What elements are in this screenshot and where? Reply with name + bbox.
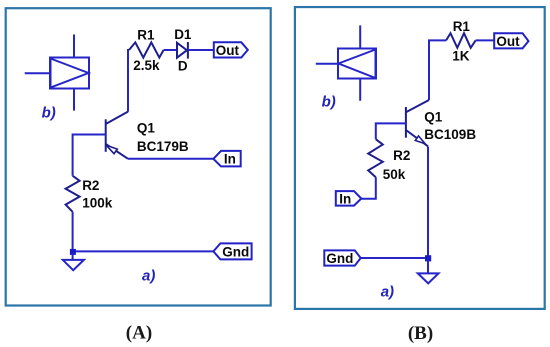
svg-text:a): a) (381, 284, 394, 301)
svg-text:R2: R2 (393, 148, 410, 163)
svg-text:BC179B: BC179B (137, 139, 189, 154)
svg-text:Out: Out (216, 43, 240, 58)
svg-text:b): b) (42, 105, 56, 122)
svg-text:R1: R1 (453, 19, 471, 34)
svg-text:D: D (178, 59, 188, 74)
svg-text:b): b) (322, 94, 336, 111)
svg-text:2.5k: 2.5k (133, 58, 160, 73)
svg-text:D1: D1 (174, 27, 192, 42)
svg-text:R1: R1 (137, 28, 155, 43)
svg-text:100k: 100k (82, 195, 113, 210)
svg-text:Gnd: Gnd (326, 251, 353, 266)
svg-text:In: In (224, 151, 236, 166)
svg-text:(B): (B) (408, 323, 433, 344)
svg-text:Out: Out (496, 34, 520, 49)
svg-text:BC109B: BC109B (424, 127, 476, 142)
svg-text:1K: 1K (452, 49, 470, 64)
svg-text:Q1: Q1 (137, 121, 156, 136)
svg-text:Gnd: Gnd (222, 244, 249, 259)
svg-text:(A): (A) (126, 322, 152, 343)
svg-text:Q1: Q1 (424, 109, 443, 124)
svg-text:R2: R2 (82, 178, 99, 193)
svg-text:In: In (339, 191, 351, 206)
svg-text:50k: 50k (383, 167, 406, 182)
svg-text:a): a) (142, 267, 155, 284)
